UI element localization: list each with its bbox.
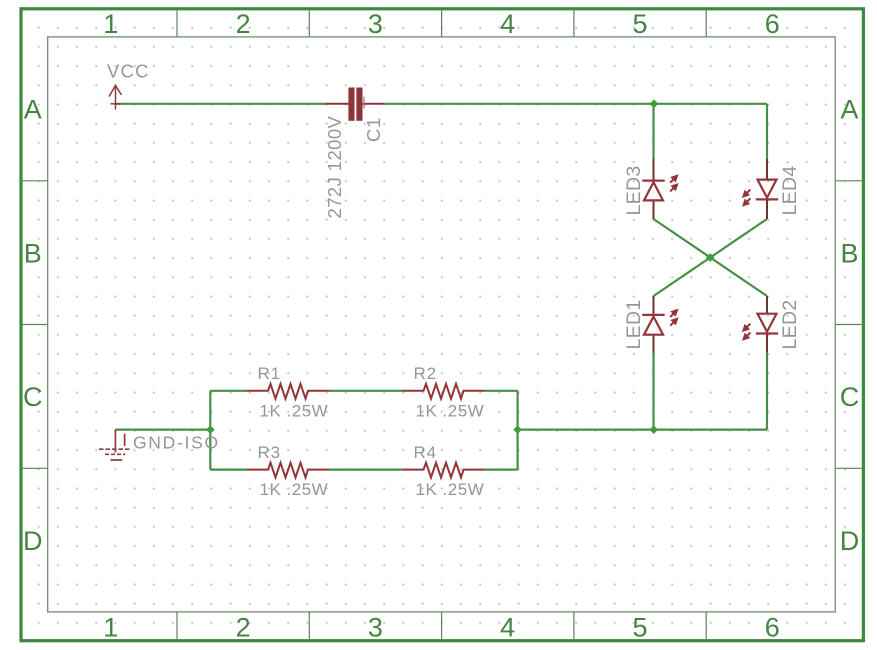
junction X center node <box>706 253 715 262</box>
frame inner rect <box>48 37 836 612</box>
wire diagonal LED3 to LED2 <box>654 219 768 296</box>
svg-text:3: 3 <box>368 9 383 39</box>
wire bridge left vertical <box>209 391 211 470</box>
resistor R4 <box>403 463 485 478</box>
svg-text:R3: R3 <box>258 443 281 462</box>
svg-text:D: D <box>840 526 860 556</box>
svg-text:1K .25W: 1K .25W <box>260 480 329 499</box>
svg-text:3: 3 <box>368 612 383 642</box>
svg-text:272J 1200V: 272J 1200V <box>324 115 345 218</box>
LED3 <box>642 159 678 220</box>
svg-text:R4: R4 <box>414 443 437 462</box>
frame column numbers bottom <box>103 612 780 642</box>
svg-text:1: 1 <box>103 9 118 39</box>
svg-text:1: 1 <box>103 612 118 642</box>
frame column ticks top <box>177 10 706 37</box>
svg-text:R1: R1 <box>258 364 281 383</box>
LED4 <box>743 159 779 219</box>
svg-text:A: A <box>24 95 42 125</box>
svg-text:2: 2 <box>236 612 251 642</box>
frame row ticks left <box>23 181 48 469</box>
svg-text:C1: C1 <box>363 117 384 142</box>
wire bottom LED bus <box>518 429 767 431</box>
svg-text:B: B <box>840 238 858 268</box>
wire diagonal LED4 to LED1 <box>654 219 768 296</box>
svg-text:5: 5 <box>632 612 647 642</box>
svg-text:VCC: VCC <box>107 61 150 82</box>
svg-text:LED4: LED4 <box>779 166 801 216</box>
frame row ticks right <box>835 181 862 469</box>
junction bridge right node <box>513 425 522 434</box>
wire C1 to LED4 column <box>384 103 767 105</box>
ground GND-ISO symbol <box>99 430 132 460</box>
wire bridge top row <box>210 390 517 392</box>
capacitor C1 <box>326 88 384 121</box>
junction bridge left node <box>206 425 215 434</box>
svg-text:5: 5 <box>632 9 647 39</box>
wire LED4 branch drop <box>766 104 768 160</box>
wire GND to bridge <box>115 429 210 431</box>
junction bottom LED node <box>649 425 658 434</box>
frame row letters left <box>23 95 43 556</box>
resistor R1 <box>247 384 329 399</box>
LED1 <box>642 296 678 353</box>
svg-text:LED1: LED1 <box>623 300 645 350</box>
svg-text:GND-ISO: GND-ISO <box>133 433 220 453</box>
svg-text:LED3: LED3 <box>623 166 645 216</box>
wire LED2 bottom <box>766 353 768 430</box>
junction top at LED3 branch <box>650 99 659 108</box>
svg-text:LED2: LED2 <box>779 300 801 350</box>
wire LED3 branch drop <box>652 104 654 159</box>
frame row letters right <box>840 95 860 556</box>
wire VCC to C1 <box>116 103 327 105</box>
svg-text:D: D <box>23 526 43 556</box>
wire LED1 bottom <box>652 353 654 430</box>
svg-text:6: 6 <box>765 9 780 39</box>
resistor R3 <box>247 463 329 478</box>
svg-text:1K .25W: 1K .25W <box>416 480 485 499</box>
svg-text:B: B <box>24 238 42 268</box>
svg-text:A: A <box>840 95 858 125</box>
wire bridge bottom row <box>210 469 517 471</box>
frame column numbers top <box>103 9 780 39</box>
frame column ticks bottom <box>177 612 706 639</box>
svg-text:4: 4 <box>500 612 515 642</box>
wire bridge right vertical <box>516 391 518 470</box>
LED2 <box>743 296 779 353</box>
svg-text:C: C <box>840 382 860 412</box>
svg-text:1K .25W: 1K .25W <box>416 401 485 420</box>
svg-text:4: 4 <box>500 9 515 39</box>
supply VCC symbol <box>109 85 122 110</box>
svg-text:R2: R2 <box>414 364 437 383</box>
svg-text:1K .25W: 1K .25W <box>260 401 329 420</box>
svg-text:6: 6 <box>765 612 780 642</box>
svg-text:C: C <box>23 382 43 412</box>
resistor R2 <box>403 384 485 399</box>
svg-text:2: 2 <box>236 9 251 39</box>
